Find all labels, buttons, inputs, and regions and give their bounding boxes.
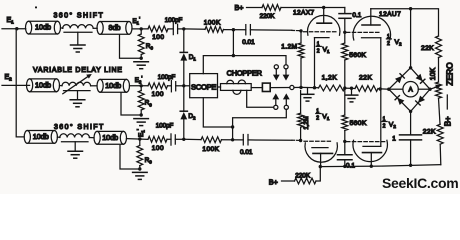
terminal ring	[290, 85, 294, 89]
wire	[184, 138, 201, 140]
node V1 grid	[299, 29, 302, 32]
ink speck	[35, 7, 37, 9]
svg-text:220K: 220K	[260, 13, 276, 20]
B+ stub right	[446, 95, 448, 109]
svg-text:10K: 10K	[430, 67, 437, 80]
node row3 junction	[138, 137, 141, 140]
V2 top cathode	[362, 37, 381, 39]
resistor 22K mid	[355, 86, 378, 92]
node row1 / D1 junction	[182, 27, 185, 30]
svg-text:10db: 10db	[35, 23, 51, 32]
svg-text:SCOPE: SCOPE	[191, 82, 216, 91]
svg-text:10db: 10db	[102, 133, 118, 142]
meter bridge rectifier	[389, 68, 411, 89]
resistor 560K bottom	[344, 88, 346, 115]
node row3 chopper tap	[231, 138, 234, 141]
svg-text:100K: 100K	[202, 146, 219, 153]
svg-text:B+: B+	[444, 116, 453, 126]
attenuator 10db row2	[27, 79, 33, 92]
node chopper top tap	[232, 54, 235, 57]
arrow variable	[63, 76, 89, 94]
wire	[224, 29, 246, 31]
svg-text:100pF: 100pF	[156, 122, 174, 129]
node V2 grid junction	[343, 31, 346, 34]
svg-text:22K: 22K	[421, 45, 434, 52]
svg-text:2: 2	[316, 116, 319, 122]
node E2p junction	[140, 84, 143, 87]
ground row3 delay	[68, 150, 83, 152]
inductor 360 shift row1	[63, 25, 94, 29]
chopper contact arrows top	[274, 65, 278, 69]
resistor 560K top	[342, 43, 348, 60]
svg-text:100: 100	[152, 145, 164, 152]
resistor R0 row2	[138, 91, 144, 111]
wire	[222, 139, 244, 141]
wire	[439, 98, 441, 124]
ground bus left	[307, 88, 309, 94]
chopper contact arrows bottom	[274, 105, 278, 109]
wire to node E1p	[132, 28, 148, 30]
potentiometer 10K ZERO	[436, 82, 442, 98]
svg-text:0.1: 0.1	[352, 12, 361, 19]
V2 bottom grid (dashed)	[347, 141, 386, 143]
tube V2 bottom envelope	[353, 140, 387, 161]
wire to node E2p	[130, 85, 149, 87]
svg-text:10db: 10db	[105, 81, 121, 90]
ground below R0 row1	[134, 61, 149, 63]
svg-text:VARIABLE DELAY LINE: VARIABLE DELAY LINE	[33, 67, 123, 74]
attenuator 10db row3 out	[94, 131, 100, 144]
ground bus right	[351, 88, 353, 94]
capacitor 100pF row3	[167, 138, 171, 140]
wire dashes into V1 bottom grid	[292, 139, 300, 141]
ground row2 delay	[70, 99, 85, 101]
attenuator 8db row1	[97, 22, 103, 35]
wire	[184, 28, 205, 30]
wire V1 top cathode riser	[314, 38, 316, 88]
diode D1	[183, 29, 185, 53]
wire E1 to third channel (vertical bus)	[16, 29, 24, 137]
capacitor 0.01 row1	[245, 25, 247, 35]
attenuator 10db row2 out	[97, 79, 103, 92]
wire bridge feed	[410, 9, 412, 68]
svg-text:100: 100	[152, 34, 164, 41]
node bridge bottom	[409, 110, 412, 113]
node staircase	[231, 125, 234, 128]
V2 bottom cathode	[363, 145, 381, 147]
node bridge left	[387, 88, 390, 91]
capacitor 1 bottom right	[410, 111, 412, 134]
diode bridge bottom-right	[418, 96, 425, 103]
delay line ground plate row1	[64, 31, 92, 33]
meter A	[403, 82, 418, 97]
node V1 bottom grid	[299, 139, 302, 142]
node cathode V2	[379, 87, 382, 90]
wire to bus	[270, 87, 290, 89]
wire scope to chopper	[218, 86, 221, 88]
svg-text:100: 100	[152, 91, 164, 98]
node E1 junction	[15, 27, 18, 30]
node meter feed	[409, 7, 412, 10]
diode D2	[183, 86, 185, 111]
resistor 1.2M top	[300, 31, 302, 43]
wire bottom rail	[320, 165, 441, 167]
V1 top grid (dashed)	[304, 31, 337, 33]
wire dashes into V1 grid	[292, 29, 300, 31]
svg-text:1,2M: 1,2M	[304, 116, 310, 129]
svg-text:B+: B+	[269, 177, 278, 186]
resistor R0 row1	[138, 34, 144, 55]
wire chopper to coupling box	[251, 87, 262, 89]
V1 bottom cathode	[312, 147, 328, 149]
wire bottom-right contact to row3	[233, 109, 287, 139]
wiper arrow to 10K	[430, 87, 437, 89]
node row1 chopper tap	[232, 28, 235, 31]
resistor 1.2M bottom	[300, 91, 302, 114]
node D1/D2 junction row2	[182, 84, 185, 87]
svg-text:100K: 100K	[204, 19, 221, 26]
ground below R0 row3	[133, 171, 148, 173]
V1 top plate	[317, 22, 332, 24]
svg-text:1: 1	[392, 136, 396, 143]
chopper vibrator bar	[221, 84, 252, 91]
svg-text:12AX7: 12AX7	[293, 10, 315, 17]
svg-text:CHOPPER: CHOPPER	[227, 68, 262, 77]
wire into scope	[184, 85, 190, 87]
wire chopper bar to bottom-left contact	[247, 90, 274, 107]
node bridge right	[428, 88, 431, 91]
V2 bottom plate	[363, 152, 382, 154]
svg-text:SeekIC.com: SeekIC.com	[382, 175, 458, 191]
svg-text:2: 2	[387, 41, 390, 47]
variable inductor row2	[62, 82, 91, 86]
svg-text:100pF: 100pF	[165, 17, 183, 24]
node V2 bottom grid junction	[343, 140, 346, 143]
ground below R0 row2	[134, 118, 149, 120]
capacitor 0.01 row3	[242, 135, 244, 145]
chopper coupling box	[262, 83, 270, 91]
resistor R0 row3	[137, 145, 143, 165]
node bridge top	[409, 66, 412, 69]
wire E2 input	[2, 84, 30, 86]
svg-text:12AU7: 12AU7	[379, 11, 401, 18]
attenuator 10db row1	[26, 21, 32, 34]
tube 12AU7 half V2 top envelope	[353, 16, 390, 40]
wire scope top	[203, 56, 286, 74]
svg-text:100pF: 100pF	[158, 74, 176, 81]
svg-text:ZERO: ZERO	[445, 62, 455, 86]
diode bridge top-left	[395, 76, 402, 83]
resistor 22K bottom right	[437, 124, 443, 144]
wire to node	[127, 138, 149, 141]
junction below R0 row3	[138, 167, 141, 170]
resistor 1.2K	[319, 85, 345, 91]
wire	[57, 136, 60, 138]
svg-text:B+: B+	[235, 3, 244, 12]
resistor 22K top right	[436, 36, 442, 58]
svg-text:360° SHIFT: 360° SHIFT	[54, 123, 105, 131]
wire R0 return to pad shell row1	[120, 35, 142, 59]
svg-text:0.01: 0.01	[240, 149, 253, 156]
wire	[282, 180, 295, 182]
delay line ground plate row3	[62, 141, 89, 143]
wire	[438, 58, 440, 83]
svg-text:220K: 220K	[295, 172, 311, 179]
svg-text:560K: 560K	[350, 120, 367, 127]
resistor 220K top	[262, 5, 281, 11]
wire	[89, 137, 94, 139]
diode bridge top-right	[416, 74, 423, 81]
junction below R0 row2	[140, 113, 143, 116]
resistor 220K bottom	[295, 178, 317, 184]
resistor 100 row2	[148, 83, 168, 89]
svg-text:2: 2	[317, 48, 320, 54]
node 1.2M bus	[299, 86, 302, 89]
svg-text:22K: 22K	[359, 75, 372, 82]
wire R0 return to pad shell row3	[120, 145, 140, 169]
wire B+ rail top	[281, 7, 345, 9]
wire B+ rail top right	[371, 9, 439, 36]
capacitor 0.1 top coupling	[344, 8, 346, 14]
tube 12AX7 half V1 top envelope	[308, 15, 340, 35]
delay line ground plate row2	[64, 90, 91, 92]
resistor 100 row3	[148, 136, 167, 142]
wire	[345, 87, 355, 89]
wire	[247, 7, 263, 9]
resistor 100K row1	[205, 27, 224, 33]
resistor 100K row3	[201, 137, 222, 143]
svg-text:8db: 8db	[109, 23, 121, 32]
capacitor 100pF row2	[168, 85, 172, 87]
node V1 plate	[322, 6, 325, 9]
V1 bottom grid (dashed)	[304, 140, 331, 142]
wire cathode bus	[301, 86, 319, 88]
wire	[61, 27, 64, 29]
svg-text:10db: 10db	[33, 132, 49, 141]
resistor 100 row1	[148, 26, 168, 32]
svg-text:360° SHIFT: 360° SHIFT	[54, 11, 105, 19]
tube V1 bottom envelope	[305, 143, 337, 162]
svg-text:10db: 10db	[35, 80, 51, 89]
wire	[60, 85, 63, 87]
junction below R0 row1	[140, 57, 143, 60]
svg-text:22K: 22K	[423, 129, 436, 136]
wire	[316, 167, 320, 181]
node 560K bus	[343, 86, 346, 89]
wire V2 top cathode riser	[380, 38, 382, 89]
wire	[91, 85, 97, 87]
V1 bottom plate	[313, 152, 333, 154]
V2 top plate	[362, 24, 380, 26]
node D2 row3	[182, 138, 185, 141]
inductor 360 shift row3	[60, 134, 90, 138]
ground row1 delay	[71, 44, 86, 46]
wire E1 input	[2, 28, 26, 30]
capacitor 0.1 bottom coupling	[344, 141, 346, 154]
wire	[439, 144, 442, 165]
V2 top grid (dashed)	[347, 31, 382, 33]
scope box	[190, 74, 218, 98]
node V1 bottom plate junction	[319, 165, 322, 168]
V1 top cathode	[315, 37, 330, 39]
svg-text:0.1: 0.1	[346, 162, 355, 169]
diode bridge bottom-left	[397, 98, 404, 105]
capacitor 100pF row1	[168, 28, 173, 30]
node E1p junction	[140, 27, 143, 30]
attenuator 10db row3 in	[24, 131, 30, 144]
svg-text:0.01: 0.01	[242, 39, 255, 46]
node cathode V1	[313, 86, 316, 89]
wire scope bottom	[203, 98, 232, 127]
wire to bridge	[378, 88, 389, 91]
wire	[93, 27, 97, 29]
svg-text:1,2K: 1,2K	[322, 75, 338, 82]
wire R0 return to pad shell row2	[121, 93, 141, 115]
svg-text:1.2M: 1.2M	[281, 44, 297, 51]
svg-text:2: 2	[383, 124, 386, 130]
wire chopper tap down	[232, 30, 234, 56]
svg-text:560K: 560K	[349, 52, 366, 59]
